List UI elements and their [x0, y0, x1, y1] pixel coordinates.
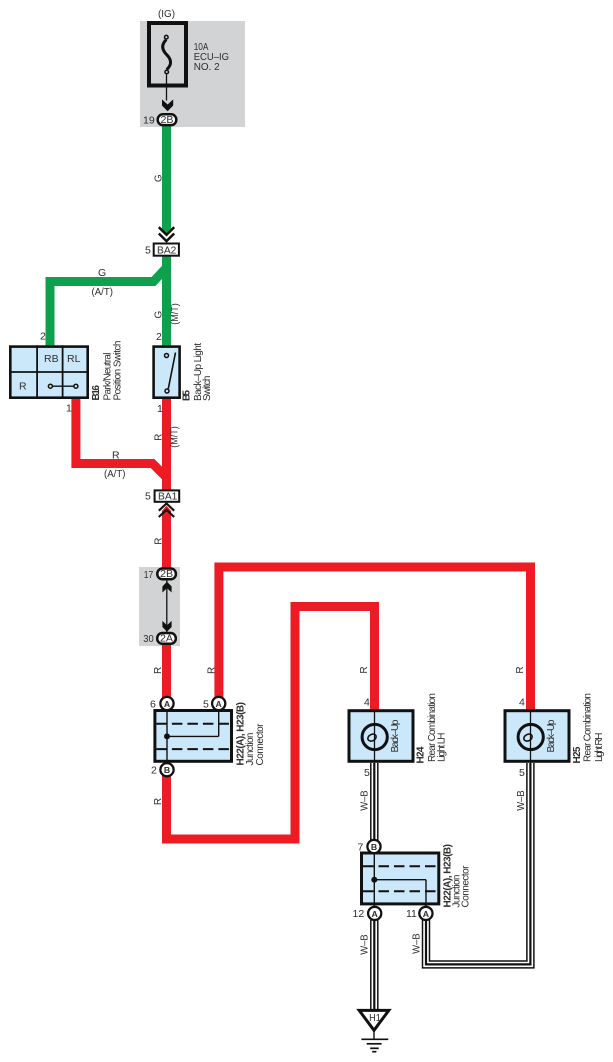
svg-text:(A/T): (A/T): [92, 286, 114, 298]
svg-text:12: 12: [353, 908, 365, 920]
svg-text:B16: B16: [91, 385, 102, 401]
svg-text:BA1: BA1: [158, 491, 178, 503]
svg-text:W–B: W–B: [360, 790, 371, 811]
svg-text:R: R: [153, 667, 164, 674]
svg-text:30: 30: [143, 633, 154, 645]
svg-text:R: R: [153, 434, 164, 441]
svg-text:R: R: [359, 666, 370, 673]
svg-text:2: 2: [151, 765, 157, 777]
svg-text:B: B: [371, 842, 377, 852]
svg-text:A: A: [423, 909, 430, 919]
svg-text:19: 19: [143, 115, 155, 127]
svg-text:11: 11: [406, 908, 417, 920]
svg-text:Back–Up: Back–Up: [546, 719, 557, 752]
svg-text:RB: RB: [44, 353, 59, 365]
svg-text:1: 1: [66, 403, 72, 415]
svg-text:R: R: [153, 798, 164, 805]
svg-text:Light RH: Light RH: [594, 733, 605, 763]
svg-text:(M/T): (M/T): [169, 426, 180, 448]
svg-text:4: 4: [519, 697, 525, 709]
svg-text:A: A: [164, 699, 171, 709]
svg-text:Rear Combination: Rear Combination: [583, 693, 594, 762]
svg-text:NO. 2: NO. 2: [194, 61, 220, 73]
svg-text:R: R: [112, 450, 120, 462]
svg-text:B5: B5: [182, 390, 193, 401]
svg-text:(IG): (IG): [158, 8, 175, 20]
svg-text:(M/T): (M/T): [170, 303, 181, 325]
svg-text:6: 6: [150, 699, 156, 711]
svg-text:Connector: Connector: [461, 865, 472, 908]
svg-text:B: B: [164, 765, 170, 775]
svg-text:5: 5: [145, 245, 151, 257]
svg-text:(A/T): (A/T): [104, 468, 126, 480]
svg-text:5: 5: [145, 491, 151, 503]
svg-text:A: A: [372, 909, 379, 919]
svg-text:H24: H24: [415, 746, 426, 763]
svg-text:R: R: [515, 666, 526, 673]
svg-text:5: 5: [203, 699, 209, 711]
svg-text:R: R: [19, 381, 27, 393]
svg-text:2B: 2B: [160, 569, 173, 580]
svg-text:W–B: W–B: [412, 933, 423, 954]
svg-text:H1: H1: [369, 1013, 381, 1024]
svg-text:BA2: BA2: [157, 245, 177, 257]
svg-text:Switch: Switch: [202, 376, 213, 402]
svg-text:Connector: Connector: [255, 723, 266, 766]
svg-text:R: R: [207, 667, 218, 674]
svg-text:G: G: [98, 267, 106, 279]
svg-text:2B: 2B: [161, 115, 174, 126]
svg-text:4: 4: [364, 697, 370, 709]
svg-text:Back–Up: Back–Up: [390, 719, 401, 752]
svg-text:RL: RL: [67, 353, 81, 365]
svg-text:Position Switch: Position Switch: [112, 341, 123, 401]
svg-text:A: A: [216, 699, 223, 709]
svg-text:1: 1: [157, 403, 163, 415]
svg-text:W–B: W–B: [360, 934, 371, 955]
svg-text:R: R: [153, 537, 164, 544]
svg-text:17: 17: [144, 569, 154, 581]
svg-text:G: G: [154, 174, 165, 182]
svg-text:G: G: [153, 310, 164, 318]
svg-text:2: 2: [40, 331, 46, 343]
svg-text:2: 2: [156, 331, 162, 343]
svg-text:5: 5: [519, 767, 525, 779]
svg-text:Light LH: Light LH: [437, 733, 448, 763]
svg-text:W–B: W–B: [516, 790, 527, 811]
svg-text:5: 5: [364, 767, 370, 779]
svg-text:2A: 2A: [160, 634, 173, 645]
svg-text:7: 7: [358, 842, 364, 854]
